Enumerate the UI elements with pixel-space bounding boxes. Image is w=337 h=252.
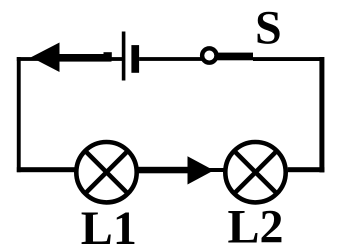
current direction arrow on top wire (pointing left) xyxy=(31,43,112,73)
wire: right vertical side of loop xyxy=(319,57,324,172)
wire: left vertical side of loop xyxy=(17,57,21,172)
svg-text:L1: L1 xyxy=(81,202,137,252)
wire: bottom left segment from corner to lamp L1 xyxy=(17,167,76,172)
wire: top segment from battery to switch pivot xyxy=(139,57,203,61)
lamp L1 (circle with X) xyxy=(76,142,136,202)
wire: bottom segment between lamps xyxy=(137,168,224,172)
svg-text:S: S xyxy=(255,2,282,55)
switch S: lever bar (closed) xyxy=(218,53,254,61)
battery: long plate xyxy=(122,32,126,81)
wire: top segment from left corner to battery long plate xyxy=(17,57,122,61)
switch S: pivot circle xyxy=(202,48,216,62)
svg-text:L2: L2 xyxy=(228,201,284,252)
wire: top segment from switch lever to right corner xyxy=(253,57,324,61)
battery: short plate xyxy=(131,45,139,73)
wire: bottom right segment from lamp L2 to right corner xyxy=(288,167,325,172)
current direction arrow on bottom wire (pointing right) xyxy=(138,156,214,184)
lamp L2 (circle with X) xyxy=(225,142,285,202)
